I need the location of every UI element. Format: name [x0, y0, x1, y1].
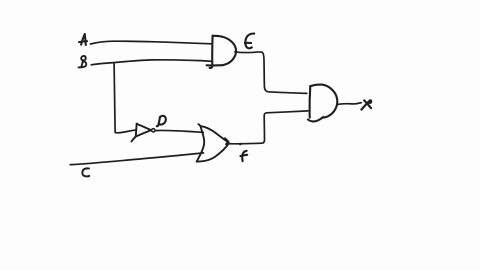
- output wire X: [337, 103, 361, 105]
- AND gate U1: [207, 36, 236, 68]
- wire f to AND gate U2: [229, 111, 308, 144]
- inverter output bubble: [152, 129, 155, 132]
- node label E: [245, 34, 254, 49]
- inverter U3 (NOT gate): [132, 124, 151, 142]
- junction dot on f wire: [239, 143, 242, 146]
- output label X: [361, 100, 371, 109]
- input label c: [82, 168, 89, 176]
- wire C: [70, 153, 203, 165]
- AND gate U2: [308, 85, 337, 122]
- wire B branch vertical to inverter: [114, 63, 136, 133]
- OR gate U4: [197, 124, 229, 162]
- wire D to OR gate: [155, 130, 203, 132]
- node label D: [157, 116, 166, 126]
- input label B: [79, 56, 87, 67]
- wire A: [91, 41, 212, 44]
- wire E to AND gate U2: [235, 52, 307, 94]
- node label f: [240, 151, 247, 161]
- wire B: [91, 60, 212, 65]
- input label A: [79, 34, 87, 45]
